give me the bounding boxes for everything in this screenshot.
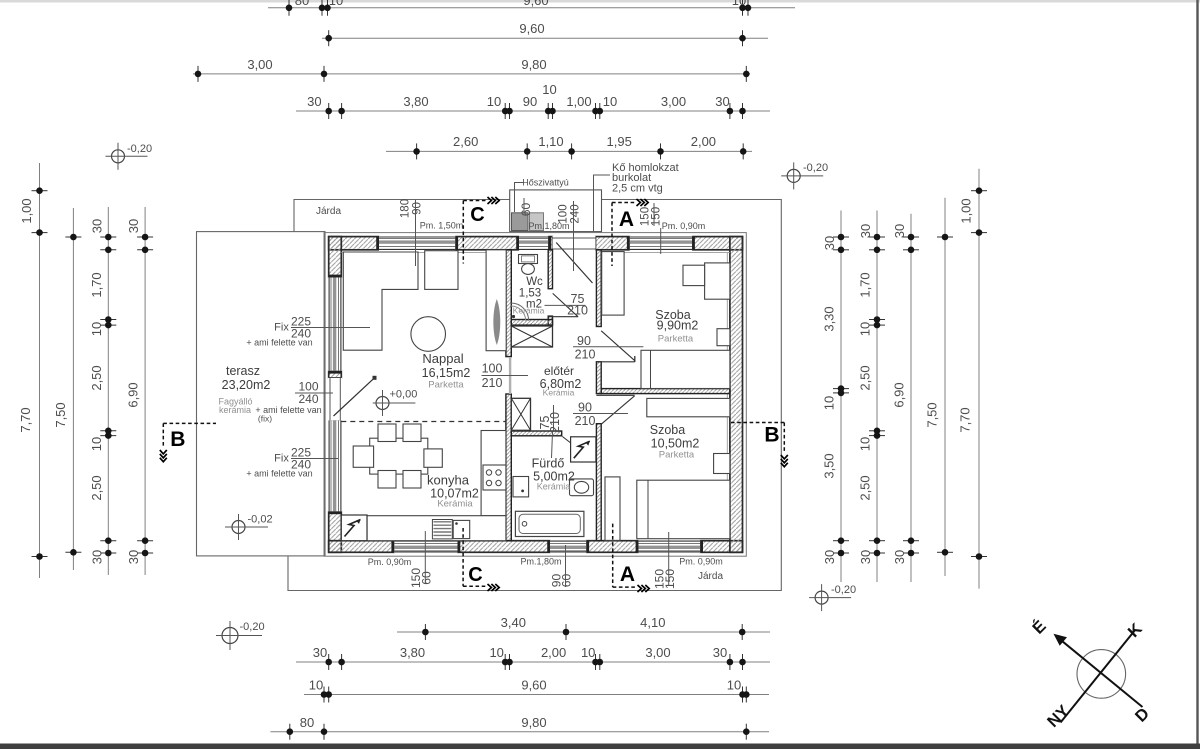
- W1 opening 100/210 sliding leaf: [509, 357, 511, 394]
- svg-text:6,90: 6,90: [892, 382, 907, 407]
- konyha chair right: [424, 449, 442, 467]
- finish line szoba9 right: [726, 253, 728, 389]
- svg-text:7,70: 7,70: [18, 407, 33, 432]
- svg-text:1,70: 1,70: [89, 272, 104, 297]
- wall bottom: szoba window to right corner: [700, 541, 742, 553]
- dim row1 top cut: [268, 7, 795, 9]
- svg-text:10: 10: [858, 437, 873, 451]
- dim rowD 80 9,80: [270, 731, 769, 733]
- svg-text:100: 100: [482, 362, 503, 376]
- svg-text:3,80: 3,80: [403, 94, 428, 109]
- konyha dining table: [370, 438, 428, 474]
- svg-text:30: 30: [715, 94, 729, 109]
- page right border: [1196, 0, 1198, 749]
- svg-text:240: 240: [570, 204, 582, 223]
- level marker -0,02 terasz: [232, 521, 245, 534]
- konyha chair bottom-right: [403, 471, 421, 489]
- section marker C bottom: [462, 528, 464, 586]
- svg-text:9,90m2: 9,90m2: [657, 319, 699, 333]
- entrance door opening 100/240: [553, 236, 596, 251]
- svg-text:Kerámia: Kerámia: [543, 388, 575, 398]
- svg-text:konyha: konyha: [427, 473, 470, 488]
- svg-text:Kerámia: Kerámia: [437, 499, 473, 510]
- building facade outline: [324, 233, 746, 557]
- nappal round table: [411, 317, 446, 352]
- dim col R5 1,00 7,70: [978, 169, 980, 589]
- konyha bottom counter: [367, 516, 506, 541]
- svg-text:B: B: [764, 424, 779, 447]
- svg-text:Szoba: Szoba: [650, 423, 685, 437]
- svg-text:60: 60: [560, 574, 574, 588]
- cabinet almond handle: [493, 299, 500, 345]
- dim col R2 chain: [876, 211, 878, 583]
- svg-text:16,15m2: 16,15m2: [422, 366, 471, 380]
- svg-text:210: 210: [548, 412, 562, 433]
- konyha chair top-left: [378, 424, 396, 442]
- window szoba10 bottom 150/150: [638, 540, 700, 554]
- konyha stove: [483, 465, 506, 490]
- svg-text:Pm. 0,90m: Pm. 0,90m: [662, 221, 706, 231]
- heat pump unit 1: [512, 213, 529, 231]
- svg-text:C: C: [468, 564, 482, 586]
- nappal armchair: [425, 251, 458, 290]
- dim col R1 chain: [840, 211, 842, 583]
- svg-text:Hőszivattyú: Hőszivattyú: [522, 178, 569, 188]
- dim row3 3,00 9,80: [193, 73, 750, 75]
- wall top: between entrance and szoba window: [596, 237, 630, 250]
- svg-text:10: 10: [727, 678, 741, 693]
- dim rowB chain: [296, 661, 770, 663]
- svg-text:210: 210: [575, 414, 596, 428]
- wall top: pier at wc right: [548, 237, 552, 250]
- svg-text:23,20m2: 23,20m2: [222, 378, 271, 392]
- level marker -0,20 top right: [787, 169, 800, 182]
- svg-text:2,5 cm vtg: 2,5 cm vtg: [612, 183, 663, 195]
- dim col L1 1,00 7,70: [39, 163, 41, 578]
- level marker -0,20 top left: [112, 150, 125, 163]
- wall W1 lower part: [506, 394, 511, 541]
- hoszivattyu leader: [515, 183, 524, 213]
- wall top: between nappal window and wc window: [455, 237, 519, 250]
- svg-text:2,50: 2,50: [89, 475, 104, 500]
- svg-text:10: 10: [603, 94, 617, 109]
- svg-text:B: B: [170, 428, 185, 451]
- page top gray strip: [0, 0, 1200, 3]
- svg-text:90: 90: [578, 401, 592, 415]
- svg-text:9,60: 9,60: [523, 0, 548, 8]
- svg-text:30: 30: [822, 236, 837, 250]
- nappal tall cabinet: [486, 250, 506, 351]
- konyha counter right column: [481, 431, 506, 516]
- svg-text:7,50: 7,50: [925, 402, 940, 427]
- svg-text:2,50: 2,50: [858, 365, 873, 390]
- window fürdő bottom 90/60: [550, 540, 586, 554]
- svg-text:-0,20: -0,20: [240, 621, 265, 633]
- entrance door swing: [556, 243, 592, 284]
- wall W2 lower stub: [548, 316, 552, 325]
- konyha zigzag box (corner): [341, 515, 367, 541]
- fürdő sink: [513, 477, 529, 497]
- svg-text:Wc: Wc: [526, 276, 543, 288]
- szoba10 wardrobe: [605, 477, 620, 541]
- szoba10 bed: [637, 480, 730, 539]
- svg-text:90: 90: [577, 334, 591, 348]
- svg-text:9,60: 9,60: [519, 21, 544, 36]
- dim rowC 10 9,60 10: [304, 694, 769, 696]
- svg-text:2,00: 2,00: [691, 134, 716, 149]
- svg-text:240: 240: [298, 392, 318, 406]
- svg-text:30: 30: [126, 550, 141, 564]
- svg-text:Pm.1,80m: Pm.1,80m: [528, 221, 569, 231]
- section marker B right: [731, 422, 784, 424]
- svg-text:Pm. 0,90m: Pm. 0,90m: [368, 557, 412, 567]
- svg-text:2,60: 2,60: [453, 134, 478, 149]
- section marker B left: [163, 422, 216, 424]
- window nappal top 180/90: [379, 236, 455, 251]
- finish line nappal top: [341, 252, 486, 254]
- svg-text:+0,00: +0,00: [390, 389, 418, 401]
- ko homlokzat leader: [594, 175, 611, 231]
- svg-text:80: 80: [300, 715, 314, 730]
- svg-text:10: 10: [542, 82, 556, 97]
- svg-text:1,10: 1,10: [538, 134, 563, 149]
- konyha chair top-right: [403, 424, 421, 442]
- wall left: bottom corner block: [329, 511, 342, 552]
- finish line szoba10 right: [726, 394, 728, 539]
- dim col R3 30 6,90 30: [910, 214, 912, 582]
- szoba10 desk: [647, 398, 730, 416]
- svg-text:210: 210: [482, 376, 503, 390]
- svg-text:A: A: [619, 208, 634, 231]
- fürdő zigzag box: [571, 437, 596, 462]
- dashed divider nappal/konyha: [341, 421, 506, 423]
- canopy rect above entrance: [510, 190, 602, 232]
- wall W1 upper part: [506, 250, 511, 357]
- svg-text:kerámia: kerámia: [219, 405, 251, 415]
- svg-text:10,50m2: 10,50m2: [651, 437, 700, 451]
- svg-text:90: 90: [523, 94, 537, 109]
- svg-text:3,00: 3,00: [645, 645, 670, 660]
- jarda sidewalk outline: [288, 200, 781, 591]
- svg-text:180: 180: [400, 199, 412, 218]
- wc quarter-circle arc: [511, 303, 529, 321]
- svg-text:Kerámia: Kerámia: [537, 482, 571, 492]
- svg-text:30: 30: [822, 550, 837, 564]
- svg-text:Járda: Járda: [316, 206, 341, 217]
- window szoba9 top 150/150: [630, 236, 692, 251]
- svg-text:7,70: 7,70: [958, 407, 973, 432]
- svg-text:3,50: 3,50: [822, 453, 837, 478]
- wall W3 piece 3: [596, 424, 601, 541]
- svg-text:Parketta: Parketta: [428, 380, 464, 391]
- szoba9 door swing (in W3): [596, 361, 634, 363]
- svg-text:30: 30: [126, 219, 141, 233]
- konyha chair left: [353, 446, 373, 467]
- svg-text:9,80: 9,80: [521, 57, 546, 72]
- svg-text:80: 80: [295, 0, 309, 8]
- svg-text:előtér: előtér: [544, 364, 574, 378]
- szoba10 nightstand: [714, 454, 730, 474]
- svg-text:150: 150: [651, 207, 663, 226]
- fürdő door swing (in W5): [562, 437, 594, 462]
- svg-text:2,00: 2,00: [541, 645, 566, 660]
- wall bottom: bath window to szoba window: [586, 541, 638, 553]
- wc door swing (in W2): [549, 316, 578, 318]
- svg-text:30: 30: [713, 645, 727, 660]
- svg-text:10: 10: [489, 645, 503, 660]
- svg-text:A: A: [620, 563, 635, 586]
- svg-text:+ ami felette van: + ami felette van: [246, 469, 312, 479]
- window konyha bottom 150/60: [394, 540, 457, 554]
- svg-text:1,70: 1,70: [858, 272, 873, 297]
- dim col L4 30 6,90 30: [144, 207, 146, 575]
- svg-text:10: 10: [89, 322, 104, 336]
- svg-text:3,40: 3,40: [501, 615, 526, 630]
- terrace door opening 100/240: [328, 378, 342, 420]
- svg-text:-0,20: -0,20: [803, 162, 828, 174]
- dim col R4 7,50: [944, 198, 946, 576]
- svg-text:Fürdő: Fürdő: [532, 457, 565, 471]
- szoba9 wardrobe: [602, 252, 624, 316]
- svg-text:30: 30: [89, 219, 104, 233]
- wall right: full height: [730, 237, 743, 553]
- svg-text:-0,02: -0,02: [248, 514, 273, 526]
- svg-text:10: 10: [822, 396, 837, 410]
- svg-text:6,90: 6,90: [126, 382, 141, 407]
- svg-text:30: 30: [89, 550, 104, 564]
- wall bottom: left corner to kitchen window: [329, 541, 395, 553]
- wall W6: [511, 320, 552, 326]
- svg-text:10: 10: [858, 322, 873, 336]
- dim col L3 chain: [107, 207, 109, 575]
- wall left: top corner block: [329, 237, 342, 278]
- svg-text:-0,20: -0,20: [127, 143, 152, 155]
- konyha chair bottom-left: [378, 471, 396, 489]
- svg-text:10: 10: [732, 0, 746, 8]
- wall left: pier between window1 and door: [329, 371, 342, 378]
- svg-text:30: 30: [858, 224, 873, 238]
- svg-text:150: 150: [663, 569, 677, 589]
- svg-text:60: 60: [420, 571, 434, 585]
- konyha sink: [453, 520, 470, 538]
- svg-text:3,00: 3,00: [247, 57, 272, 72]
- svg-text:2,50: 2,50: [89, 365, 104, 390]
- wall W4: [601, 389, 730, 394]
- compass rose: [1077, 650, 1126, 699]
- terasz outline: [197, 232, 326, 556]
- finish line szoba9 top: [602, 252, 730, 254]
- svg-text:30: 30: [307, 94, 321, 109]
- page bottom dark bar: [0, 744, 1200, 750]
- svg-text:1,95: 1,95: [607, 134, 632, 149]
- wall W2 upper part: [548, 250, 552, 289]
- svg-text:Nappal: Nappal: [422, 351, 463, 366]
- svg-text:9,60: 9,60: [521, 678, 546, 693]
- window wc top 60: [519, 236, 548, 251]
- level marker -0,20 bottom right: [815, 591, 828, 604]
- svg-text:9,80: 9,80: [521, 715, 546, 730]
- svg-text:terasz: terasz: [226, 364, 260, 378]
- level marker -0,20 bottom left: [222, 628, 238, 644]
- svg-text:1,00: 1,00: [959, 198, 974, 223]
- wall top: szoba window to corner: [692, 237, 742, 250]
- svg-text:60: 60: [519, 203, 533, 217]
- svg-text:Pm. 1,50m: Pm. 1,50m: [420, 221, 464, 231]
- svg-text:1,00: 1,00: [566, 94, 591, 109]
- window konyha left Fix 225/240: [328, 420, 343, 511]
- svg-text:Járda: Járda: [698, 571, 723, 582]
- svg-text:Fix: Fix: [274, 322, 289, 334]
- svg-text:4,10: 4,10: [640, 615, 665, 630]
- terrace door swing: [334, 378, 375, 416]
- svg-text:C: C: [470, 204, 484, 226]
- svg-text:7,50: 7,50: [53, 402, 68, 427]
- wall bottom: kitchen window to bath window: [458, 541, 551, 553]
- svg-text:10: 10: [329, 0, 343, 8]
- section marker C top: [462, 201, 464, 264]
- svg-text:Fix: Fix: [274, 453, 289, 465]
- compass line E-D with north arrow: [1058, 637, 1143, 707]
- svg-text:Parketta: Parketta: [658, 334, 694, 345]
- svg-text:3,00: 3,00: [661, 94, 686, 109]
- dim rowA 3,40 4,10: [397, 631, 770, 633]
- svg-text:30: 30: [858, 550, 873, 564]
- shaft box with X below wc: [511, 326, 552, 347]
- svg-text:10: 10: [581, 645, 595, 660]
- svg-text:(fix): (fix): [258, 414, 272, 424]
- svg-text:Kerámia: Kerámia: [513, 306, 545, 316]
- wall W5: [511, 431, 561, 436]
- nappal sofa L-shape: [343, 252, 418, 350]
- svg-text:1,00: 1,00: [19, 198, 34, 223]
- konyha dishwasher striped: [432, 520, 452, 539]
- svg-text:-0,20: -0,20: [831, 584, 856, 596]
- fürdő toilet: [570, 479, 594, 496]
- szoba9 bed: [641, 350, 730, 388]
- wc toilet: [519, 255, 538, 264]
- szoba10 door swing (in W3): [596, 394, 634, 396]
- svg-text:30: 30: [892, 550, 907, 564]
- svg-text:90: 90: [412, 202, 424, 215]
- wall W3 piece 2: [596, 362, 601, 394]
- svg-text:210: 210: [567, 304, 588, 318]
- szoba9 desk: [705, 263, 730, 299]
- wall top: corner to nappal window: [329, 237, 379, 250]
- svg-text:30: 30: [892, 224, 907, 238]
- section marker A bottom: [612, 524, 614, 588]
- svg-text:10: 10: [487, 94, 501, 109]
- compass line NY-K: [1061, 630, 1136, 723]
- svg-text:Parketta: Parketta: [659, 450, 695, 461]
- svg-text:Pm. 0,90m: Pm. 0,90m: [679, 557, 723, 567]
- dim row4 chain: [296, 110, 770, 112]
- svg-text:10: 10: [309, 678, 323, 693]
- svg-text:210: 210: [575, 348, 596, 362]
- szoba9 chair: [683, 265, 705, 285]
- svg-text:3,30: 3,30: [822, 306, 837, 331]
- wall W3 piece 1: [596, 250, 601, 327]
- svg-text:2,50: 2,50: [858, 475, 873, 500]
- szoba9 nightstand: [717, 329, 730, 346]
- svg-text:30: 30: [313, 645, 327, 660]
- svg-text:10: 10: [89, 437, 104, 451]
- svg-text:3,80: 3,80: [400, 645, 425, 660]
- dim col L2 7,50: [72, 208, 74, 570]
- section marker A top: [611, 203, 613, 267]
- dim row2 9,60: [322, 37, 768, 39]
- fürdő bathtub: [515, 511, 584, 536]
- svg-text:Pm.1,80m: Pm.1,80m: [520, 557, 561, 567]
- svg-text:+ ami felette van: + ami felette van: [246, 338, 312, 348]
- dim row5 2,60 1,10 1,95 2,00: [386, 150, 752, 152]
- shaft box with X above fürdő: [511, 398, 530, 430]
- +0,00 level marker: [376, 397, 389, 410]
- heat pump unit 2: [530, 213, 544, 231]
- window nappal left Fix 225/240: [328, 277, 343, 370]
